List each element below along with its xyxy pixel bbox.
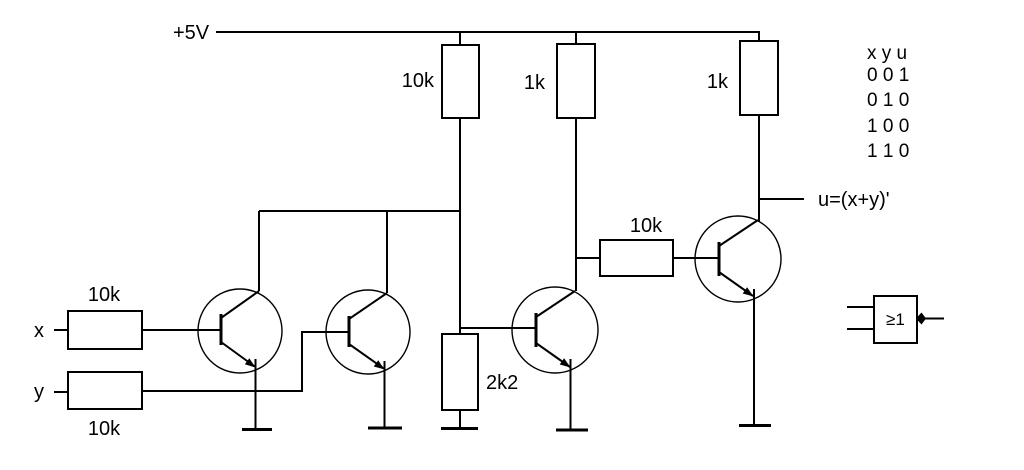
wire Q4 emitter down <box>753 289 755 425</box>
wire R7 to Q4 base <box>673 257 719 259</box>
ground under Q3 <box>556 429 588 432</box>
resistor R1 10k (collector load) <box>442 45 479 118</box>
gate U1 NOR symbol box <box>874 296 917 343</box>
ground under Q2 <box>368 427 402 430</box>
ground under Q1 <box>242 428 272 431</box>
wire Q2 collector up <box>386 211 388 293</box>
wire R4 to Q1 base <box>142 329 221 331</box>
wire stub rail to R1 <box>459 32 461 45</box>
svg-text:x y u: x y u <box>867 43 907 64</box>
wire gate output <box>925 318 944 320</box>
svg-text:10k: 10k <box>88 284 121 306</box>
wire Q1 emitter down <box>255 359 257 429</box>
transistor Q2 (y input) <box>326 290 410 374</box>
transistor Q1 (x input) <box>198 289 282 373</box>
svg-text:1k: 1k <box>524 72 546 94</box>
resistor R3 1k <box>740 41 778 115</box>
wire stub rail to R2 <box>575 32 577 44</box>
wire gate input 2 <box>847 328 874 330</box>
wire output stub to label <box>760 198 804 200</box>
resistor R2 1k <box>557 44 595 118</box>
ground under Q4 <box>739 424 771 427</box>
svg-text:1 1 0: 1 1 0 <box>867 141 909 162</box>
svg-text:x: x <box>34 320 44 342</box>
wire R2 bottom to Q3 collector <box>575 118 577 291</box>
wire x input lead <box>54 329 68 331</box>
svg-text:y: y <box>34 381 44 403</box>
resistor R7 10k (base of Q4) <box>600 240 673 276</box>
wire Q1 collector up <box>258 211 260 291</box>
svg-text:10k: 10k <box>88 418 121 440</box>
wire +5V power rail <box>216 31 759 33</box>
wire R1 bottom down to 2k2 node <box>459 118 461 334</box>
svg-text:u=(x+y)': u=(x+y)' <box>818 189 890 211</box>
transistor Q3 (inverter driver) <box>512 287 598 373</box>
resistor R5 10k (y input) <box>68 372 142 409</box>
svg-text:10k: 10k <box>402 70 435 92</box>
wire Q2 emitter down <box>384 361 386 427</box>
svg-text:10k: 10k <box>630 215 663 237</box>
ground under R6 <box>441 427 478 430</box>
svg-text:≥1: ≥1 <box>886 310 905 329</box>
wire gate input 1 <box>847 306 874 308</box>
svg-text:0 1 0: 0 1 0 <box>867 90 909 111</box>
svg-text:1k: 1k <box>707 71 729 93</box>
wire Q3 emitter down <box>570 359 572 429</box>
gate inversion diamond at output <box>916 313 926 325</box>
svg-text:+5V: +5V <box>173 22 210 44</box>
transistor Q4 (output) <box>695 216 781 302</box>
svg-text:0 0 1: 0 0 1 <box>867 65 909 86</box>
svg-text:2k2: 2k2 <box>486 372 518 394</box>
wire R6 bottom <box>459 410 461 428</box>
wire stub rail corner to R3 <box>758 31 760 41</box>
wire R5 to Q2 base corner <box>142 331 349 392</box>
resistor R6 2k2 <box>442 334 478 410</box>
wire node to Q3 base <box>460 327 536 329</box>
svg-text:1 0 0: 1 0 0 <box>867 116 909 137</box>
wire R3 bottom to Q4 collector <box>758 115 760 222</box>
wire R2 node to R7 <box>576 257 600 259</box>
resistor R4 10k (x input) <box>68 311 142 349</box>
wire y input lead <box>54 391 68 393</box>
wire collector node Q1-Q2 to R1 column <box>259 210 460 212</box>
